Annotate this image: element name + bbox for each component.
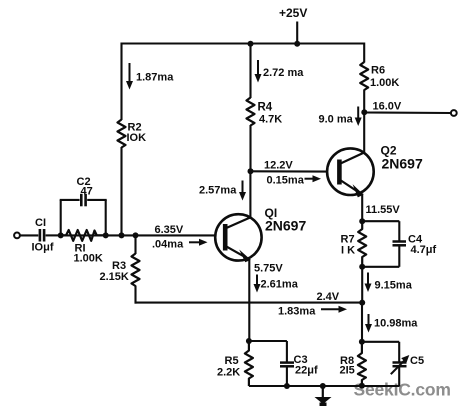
label 0.15ma (267, 175, 305, 187)
capacitor C4 (393, 221, 407, 267)
svg-text:4.7K: 4.7K (259, 114, 282, 126)
svg-text:2.15K: 2.15K (100, 271, 129, 283)
label Q1 (265, 206, 278, 220)
svg-text:5.75V: 5.75V (254, 263, 283, 275)
wire R8-C5 box top (362, 341, 399, 343)
svg-text:10.98ma: 10.98ma (374, 318, 418, 330)
node junction dot ground stub (320, 383, 326, 389)
svg-text:1.83ma: 1.83ma (278, 306, 316, 318)
svg-text:47: 47 (81, 186, 93, 198)
arrow current 10.98ma (365, 314, 372, 333)
label R6 (371, 65, 385, 77)
transistor Q1 (215, 214, 261, 262)
resistor R6 (360, 62, 368, 90)
svg-text:R6: R6 (371, 65, 385, 77)
label R8 value 215 (340, 365, 355, 377)
label R4 (258, 102, 273, 114)
label R7 (341, 234, 355, 246)
svg-text:11.55V: 11.55V (366, 204, 401, 216)
label R3 (112, 260, 126, 272)
wire R6 to output node (363, 90, 365, 114)
label 12.2V (264, 160, 293, 172)
label R2 (128, 122, 142, 134)
node +25V label (279, 6, 307, 20)
wire R7-C4 box top (362, 220, 399, 222)
node junction dot 2.4V (359, 300, 365, 306)
wire left branch vertical (rail to R2) (120, 43, 122, 121)
svg-text:2N697: 2N697 (265, 218, 306, 234)
wire R6 branch vertical (rail to R6) (363, 43, 365, 63)
svg-text:R4: R4 (258, 102, 273, 114)
svg-text:9.15ma: 9.15ma (375, 280, 413, 292)
label C3 value 22uf (295, 365, 318, 377)
label 2.61ma (261, 279, 299, 291)
resistor R8 (358, 342, 366, 386)
svg-text:IOK: IOK (127, 132, 147, 144)
arrow current 2.72ma (255, 60, 262, 83)
svg-text:I K: I K (341, 245, 355, 257)
arrow current 1.87ma (126, 63, 133, 90)
svg-text:22μf: 22μf (295, 365, 318, 377)
svg-text:1.00K: 1.00K (74, 253, 103, 265)
label 16.0V (373, 101, 402, 113)
wire R2 to input line (120, 147, 122, 235)
label R2 value 10K (127, 132, 147, 144)
wire R5-C3 box top (249, 340, 287, 342)
label Q1 part 2N697 (265, 218, 306, 234)
resistor R1 (61, 230, 106, 241)
svg-text:16.0V: 16.0V (373, 101, 402, 113)
wire R4 to 12.2V node (249, 125, 251, 172)
node junction dot R5 branch (246, 338, 252, 344)
label 2.57ma (199, 185, 237, 197)
label R3 value 2.15K (100, 271, 129, 283)
label R1 (75, 243, 86, 255)
transistor Q2 (327, 148, 374, 197)
watermark SeekIC.com (354, 380, 451, 400)
label R8 (340, 355, 354, 367)
capacitor C3 (280, 341, 294, 387)
arrow current 1.83ma (321, 306, 347, 313)
label R6 value 1.00K (370, 77, 399, 89)
node junction dot input line / C2 right (103, 232, 109, 238)
wire Q1 collector (249, 171, 251, 219)
resistor R5 (245, 341, 253, 386)
label R5 (225, 355, 239, 367)
wire R4 branch vertical (rail to R4) (249, 43, 251, 99)
wire Q2 collector (363, 112, 365, 153)
svg-text:1.00K: 1.00K (370, 77, 399, 89)
label C5 (410, 355, 424, 367)
wire top supply rail (122, 42, 365, 44)
capacitor C2 parallel branch (60, 194, 107, 236)
svg-text:2.61ma: 2.61ma (261, 279, 299, 291)
svg-text:.04ma: .04ma (152, 239, 184, 251)
node junction dot R7 top (359, 218, 365, 224)
svg-text:0.15ma: 0.15ma (267, 175, 305, 187)
svg-text:6.35V: 6.35V (155, 224, 184, 236)
arrow current 2.57ma (239, 181, 246, 201)
node junction dot R8 top (359, 339, 365, 345)
wire bottom ground rail (249, 385, 399, 387)
label C2 (77, 176, 91, 188)
label R1 value 1.00K (74, 253, 103, 265)
capacitor C5 variable (391, 342, 410, 387)
svg-text:2I5: 2I5 (340, 365, 355, 377)
arrow current 0.15ma (305, 175, 322, 182)
svg-text:2.72 ma: 2.72 ma (263, 67, 304, 79)
resistor R7 (358, 221, 366, 267)
label C1 (35, 217, 46, 229)
svg-text:+25V: +25V (279, 6, 307, 20)
wire R7-C4 box bottom (362, 266, 399, 268)
resistor R3 (132, 254, 140, 287)
resistor R2 (118, 120, 126, 148)
arrow current 9.0ma (355, 107, 362, 127)
label C2 value 47 (81, 186, 93, 198)
node junction dot R7 bottom (359, 264, 365, 270)
svg-text:12.2V: 12.2V (264, 160, 293, 172)
label C1 value 10uf (32, 242, 54, 254)
label Q2 part 2N697 (382, 156, 423, 172)
node junction dot at +25V stub (294, 41, 300, 47)
node junction dot at R4 branch on rail (248, 41, 254, 47)
svg-text:R5: R5 (225, 355, 239, 367)
node junction dot R8 bottom (359, 383, 365, 389)
wire +25V stub (296, 22, 298, 44)
svg-text:2.4V: 2.4V (317, 291, 340, 303)
wire Q1 emitter vertical (248, 259, 250, 342)
label R5 value 2.2K (217, 367, 240, 379)
label R7 value 1K (341, 245, 355, 257)
label 11.55V (366, 204, 401, 216)
svg-text:C5: C5 (410, 355, 424, 367)
wire 2.4V rail (135, 302, 363, 304)
arrow current .04ma (189, 239, 208, 246)
wire 2.4V node to R8 (361, 303, 363, 343)
svg-text:IOμf: IOμf (32, 242, 54, 254)
node junction dot input line / C2 left (58, 232, 64, 238)
node input terminal (14, 233, 20, 239)
node output terminal (451, 110, 457, 116)
wire R3 to 2.4V rail corner (134, 286, 136, 304)
svg-text:2.57ma: 2.57ma (199, 185, 237, 197)
label 9.0 ma (319, 114, 354, 126)
svg-text:2.2K: 2.2K (217, 367, 240, 379)
node junction dot R2 on input line (119, 232, 125, 238)
label 1.87ma (136, 72, 174, 84)
node junction dot output 16.0V (361, 109, 367, 115)
svg-text:4.7μf: 4.7μf (411, 244, 437, 256)
wire R3 branch (134, 235, 136, 254)
svg-text:1.87ma: 1.87ma (136, 72, 174, 84)
arrow current 2.61ma (254, 275, 261, 293)
wire Q2 emitter vertical (361, 194, 363, 223)
label C3 (294, 354, 308, 366)
wire output line (364, 111, 451, 114)
label .04ma (152, 239, 184, 251)
wire 12.2V node to Q2 base (251, 170, 328, 172)
label 9.15ma (375, 280, 413, 292)
wire R7 bottom to 2.4V node (361, 267, 363, 304)
label R4 value 4.7K (259, 114, 282, 126)
label C4 value 4.7uf (411, 244, 437, 256)
label 2.72 ma (263, 67, 304, 79)
label C4 (408, 234, 423, 246)
node junction dot 12.2V (248, 168, 254, 174)
resistor R4 (247, 98, 255, 126)
wire input line to Q1 base (61, 234, 216, 236)
ground (315, 386, 332, 406)
label 5.75V (254, 263, 283, 275)
node junction dot C3 bottom (284, 383, 290, 389)
label 1.83ma (278, 306, 316, 318)
label 10.98ma (374, 318, 418, 330)
arrow current 9.15ma (365, 273, 372, 293)
label 6.35V (155, 224, 184, 236)
label Q2 (381, 144, 397, 158)
node junction dot R3 on input line (133, 232, 139, 238)
svg-text:SeekIC.com: SeekIC.com (354, 380, 451, 400)
label 2.4V (317, 291, 340, 303)
capacitor C1 input coupling (20, 229, 61, 242)
svg-text:CI: CI (35, 217, 46, 229)
svg-text:2N697: 2N697 (382, 156, 423, 172)
svg-text:9.0 ma: 9.0 ma (319, 114, 354, 126)
